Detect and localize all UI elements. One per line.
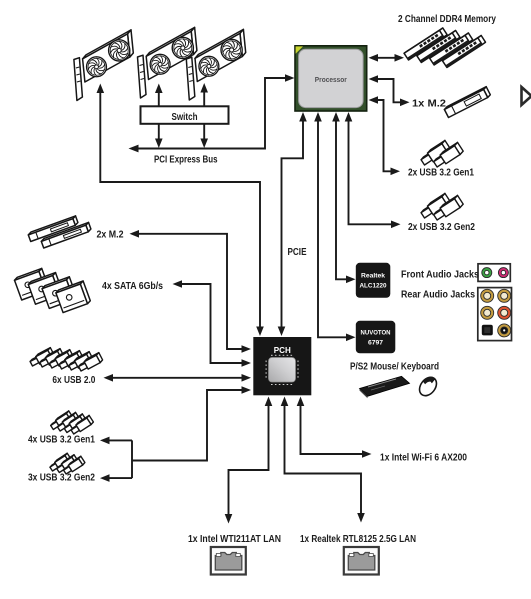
svg-text:ALC1220: ALC1220 <box>360 283 387 290</box>
Realtek LAN port icon <box>344 547 379 575</box>
6x USB 2.0 connector icons <box>30 348 103 371</box>
wire: switch to bus (right drop) <box>200 124 208 148</box>
wire: switch to GPU3 <box>200 83 208 106</box>
svg-text:PCH: PCH <box>274 346 291 355</box>
front audio jacks panel <box>478 264 510 282</box>
2x M.2 SSD icons <box>28 216 91 248</box>
2x USB 3.2 Gen2 connector icons (right) <box>421 193 463 220</box>
mouse icon <box>416 374 440 399</box>
wire: switch to bus (left drop) <box>155 124 163 148</box>
wire: processor to 2x USB 3.2 Gen1 <box>369 96 401 175</box>
wire: processor to PCH <box>278 112 307 336</box>
wire: switch to GPU2 <box>155 84 163 107</box>
page-edge triangle marker <box>522 87 531 105</box>
4x DDR4 RAM modules <box>404 28 485 68</box>
wire: PCH to 6x USB 2.0 (double arrow) <box>104 374 252 382</box>
wire: processor to 2x USB 3.2 Gen2 <box>345 112 401 228</box>
4x USB 3.2 Gen1 connector icons <box>51 411 94 434</box>
svg-text:4x SATA 6Gb/s: 4x SATA 6Gb/s <box>102 281 163 292</box>
GPU card 1 <box>74 30 133 101</box>
wire: PCH to front USB 3.2 Gen1/Gen2 <box>100 386 251 482</box>
svg-text:2 Channel DDR4 Memory: 2 Channel DDR4 Memory <box>398 14 496 25</box>
wire: processor to Realtek ALC1220 <box>332 112 355 283</box>
wire: PCI Express bus line <box>129 74 295 152</box>
1x M.2 SSD icon <box>444 87 490 118</box>
svg-text:Rear Audio Jacks: Rear Audio Jacks <box>401 290 475 301</box>
svg-text:PCI Express Bus: PCI Express Bus <box>154 155 218 166</box>
svg-text:Processor: Processor <box>315 75 347 84</box>
wire: PCH to Intel Wi-Fi 6 AX200 <box>297 397 372 458</box>
svg-text:Switch: Switch <box>172 112 198 123</box>
3x USB 3.2 Gen2 connector icons <box>50 453 85 474</box>
4x SATA drive icons <box>15 268 91 312</box>
Realtek ALC1220 codec <box>356 263 391 298</box>
GPU card 3 <box>186 29 245 100</box>
svg-text:Front Audio Jacks: Front Audio Jacks <box>401 269 479 280</box>
wire: PCH to 4x SATA 6Gb/s <box>173 280 252 367</box>
svg-text:6x USB 2.0: 6x USB 2.0 <box>52 375 95 386</box>
NUVOTON 6797 super I/O <box>356 321 396 354</box>
wire: PCH to Intel WTI211AT LAN <box>225 397 273 524</box>
switch SW1 <box>141 106 229 124</box>
Intel LAN port icon <box>211 547 246 575</box>
wire: PCH to GPU1 (PCIe) <box>97 84 264 337</box>
svg-text:P/S2 Mouse/ Keyboard: P/S2 Mouse/ Keyboard <box>350 362 439 373</box>
svg-text:1x Realtek RTL8125 2.5G LAN: 1x Realtek RTL8125 2.5G LAN <box>300 534 416 545</box>
svg-text:2x USB 3.2 Gen2: 2x USB 3.2 Gen2 <box>408 222 475 233</box>
keyboard icon <box>360 376 410 398</box>
processor U1 <box>295 46 367 111</box>
svg-text:1x M.2: 1x M.2 <box>412 99 446 110</box>
svg-text:2x M.2: 2x M.2 <box>97 230 124 241</box>
svg-text:4x USB 3.2 Gen1: 4x USB 3.2 Gen1 <box>28 435 95 446</box>
wire: processor to NUVOTON 6797 <box>314 112 355 341</box>
wire: processor to 1x M.2 <box>369 75 410 106</box>
wire: processor to DDR4 memory (double arrow) <box>369 54 405 62</box>
svg-text:1x Intel WTI211AT LAN: 1x Intel WTI211AT LAN <box>188 534 281 545</box>
svg-text:1x Intel Wi-Fi 6 AX200: 1x Intel Wi-Fi 6 AX200 <box>380 453 467 464</box>
svg-text:NUVOTON: NUVOTON <box>361 330 391 337</box>
rear audio jack colors <box>478 288 512 341</box>
svg-text:6797: 6797 <box>368 340 383 347</box>
wire: PCH to 2x M.2 <box>130 230 252 353</box>
svg-text:2x USB 3.2 Gen1: 2x USB 3.2 Gen1 <box>408 168 474 179</box>
2x USB 3.2 Gen1 connector icons (right) <box>421 140 463 167</box>
svg-text:Realtek: Realtek <box>361 273 385 280</box>
svg-text:PCIE: PCIE <box>288 247 307 258</box>
wire: PCH to Realtek RTL8125 LAN <box>281 397 365 523</box>
PCH chip <box>253 337 311 395</box>
svg-text:3x USB 3.2 Gen2: 3x USB 3.2 Gen2 <box>28 473 95 484</box>
GPU card 2 <box>138 27 197 98</box>
